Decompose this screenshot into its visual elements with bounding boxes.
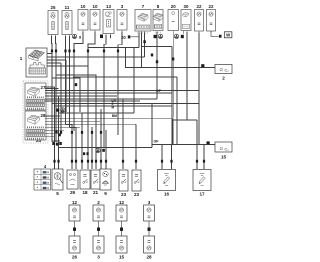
- wire code tags row top: [51, 50, 119, 53]
- pair column 3 lower lamp: [116, 236, 127, 260]
- svg-text:15: 15: [119, 255, 125, 260]
- pair column 2 lower lamp: [93, 236, 104, 260]
- lamp unit 25: [48, 5, 58, 36]
- wire tag and connector A mid: [154, 34, 163, 38]
- svg-text:8: 8: [79, 36, 81, 40]
- pair column 2 wire: [97, 221, 100, 236]
- svg-text:C₀: C₀: [225, 148, 230, 152]
- svg-text:16: 16: [164, 192, 170, 197]
- wire verticals right side: [126, 32, 200, 148]
- svg-text:C₀: C₀: [225, 69, 230, 73]
- fuse grid 4: [34, 164, 51, 190]
- svg-text:2: 2: [222, 76, 225, 81]
- svg-text:15: 15: [221, 155, 227, 160]
- connector 15 right: [207, 141, 233, 159]
- wire code tags above bottom row: [53, 160, 205, 163]
- svg-text:1: 1: [20, 56, 23, 61]
- svg-text:3: 3: [148, 200, 151, 205]
- unit 13: [103, 4, 114, 35]
- lamp 10 right: [90, 4, 100, 32]
- wire code tags row middle: [60, 131, 102, 134]
- wires: left bus verticals: [55, 60, 67, 169]
- lamp 22 right: [207, 4, 216, 33]
- connector 27: [25, 83, 46, 110]
- pair column 4 wire: [148, 221, 151, 236]
- svg-text:OF: OF: [156, 89, 162, 93]
- svg-text:23: 23: [134, 192, 140, 197]
- lamp 3: [117, 4, 127, 32]
- node 20 link: [121, 35, 139, 40]
- pair column 1 lower lamp: [69, 236, 80, 260]
- wire tags mesh misc: [52, 83, 161, 155]
- svg-text:OF: OF: [154, 139, 160, 143]
- harness boundary 24: [23, 81, 48, 143]
- svg-text:12: 12: [119, 200, 125, 205]
- wire code tags right stubs: [143, 40, 174, 63]
- lamp 10 left: [78, 4, 88, 32]
- svg-text:22: 22: [209, 4, 214, 9]
- svg-text:2: 2: [97, 200, 100, 205]
- connector 30: [181, 4, 191, 34]
- wire stubs: connector 27: [45, 87, 199, 145]
- connector 2 right: [201, 64, 232, 80]
- svg-text:3: 3: [97, 255, 100, 260]
- lamp 22 left: [195, 4, 204, 33]
- motor 5: [52, 169, 63, 196]
- wire stubs: fusebox 1: [47, 54, 145, 170]
- svg-text:26: 26: [72, 255, 78, 260]
- svg-text:22: 22: [197, 4, 202, 9]
- svg-text:25: 25: [51, 5, 56, 10]
- buzzer 9: [100, 169, 111, 196]
- connector unit 8: [153, 4, 163, 33]
- actuator 16: [158, 170, 176, 197]
- connector unit 7: [135, 4, 151, 34]
- svg-text:12: 12: [72, 200, 78, 205]
- pair column 1 upper lamp: [69, 200, 80, 221]
- svg-text:BM: BM: [112, 114, 117, 118]
- wires: drops from top lamps with jogs: [52, 32, 123, 170]
- wire tag N near 13: [100, 35, 103, 39]
- svg-text:20: 20: [171, 4, 176, 9]
- pair column 3 wire: [120, 221, 123, 236]
- svg-text:27: 27: [41, 85, 46, 90]
- connector W top right: [211, 31, 232, 38]
- wire mesh horizontals: [52, 47, 215, 148]
- svg-text:29: 29: [70, 190, 76, 195]
- svg-text:9: 9: [104, 191, 107, 196]
- svg-text:30: 30: [184, 4, 189, 9]
- svg-text:M: M: [112, 106, 115, 110]
- connector 28: [25, 111, 46, 140]
- svg-text:23: 23: [121, 192, 127, 197]
- fusebox 1: [20, 48, 47, 77]
- switch 18: [80, 170, 90, 195]
- svg-text:11: 11: [65, 5, 70, 10]
- connector symbol A8: [72, 34, 81, 39]
- switch 20: [168, 4, 179, 32]
- wire drops to bottom row: [66, 99, 205, 169]
- svg-text:10: 10: [81, 4, 86, 9]
- svg-text:28: 28: [41, 113, 46, 118]
- svg-text:10: 10: [93, 4, 98, 9]
- switch 23 right: [132, 170, 141, 197]
- svg-text:28: 28: [146, 255, 152, 260]
- svg-text:21: 21: [93, 190, 99, 195]
- switch 21: [91, 170, 100, 195]
- pair column 3 upper lamp: [116, 200, 127, 221]
- lamp unit 11: [62, 5, 72, 36]
- svg-text:13: 13: [106, 4, 111, 9]
- wire stubs: connector 28: [45, 116, 173, 145]
- switch 23 left: [119, 170, 128, 197]
- pair column 4 upper lamp: [144, 200, 155, 221]
- svg-text:5: 5: [56, 191, 59, 196]
- actuator 17: [193, 170, 211, 197]
- connector A right: [174, 34, 184, 38]
- relay 29: [67, 170, 78, 195]
- svg-text:17: 17: [199, 192, 205, 197]
- svg-text:18: 18: [82, 190, 88, 195]
- pair column 1 wire: [73, 221, 76, 236]
- pair column 2 upper lamp: [93, 200, 104, 221]
- pair column 4 lower lamp: [144, 236, 155, 260]
